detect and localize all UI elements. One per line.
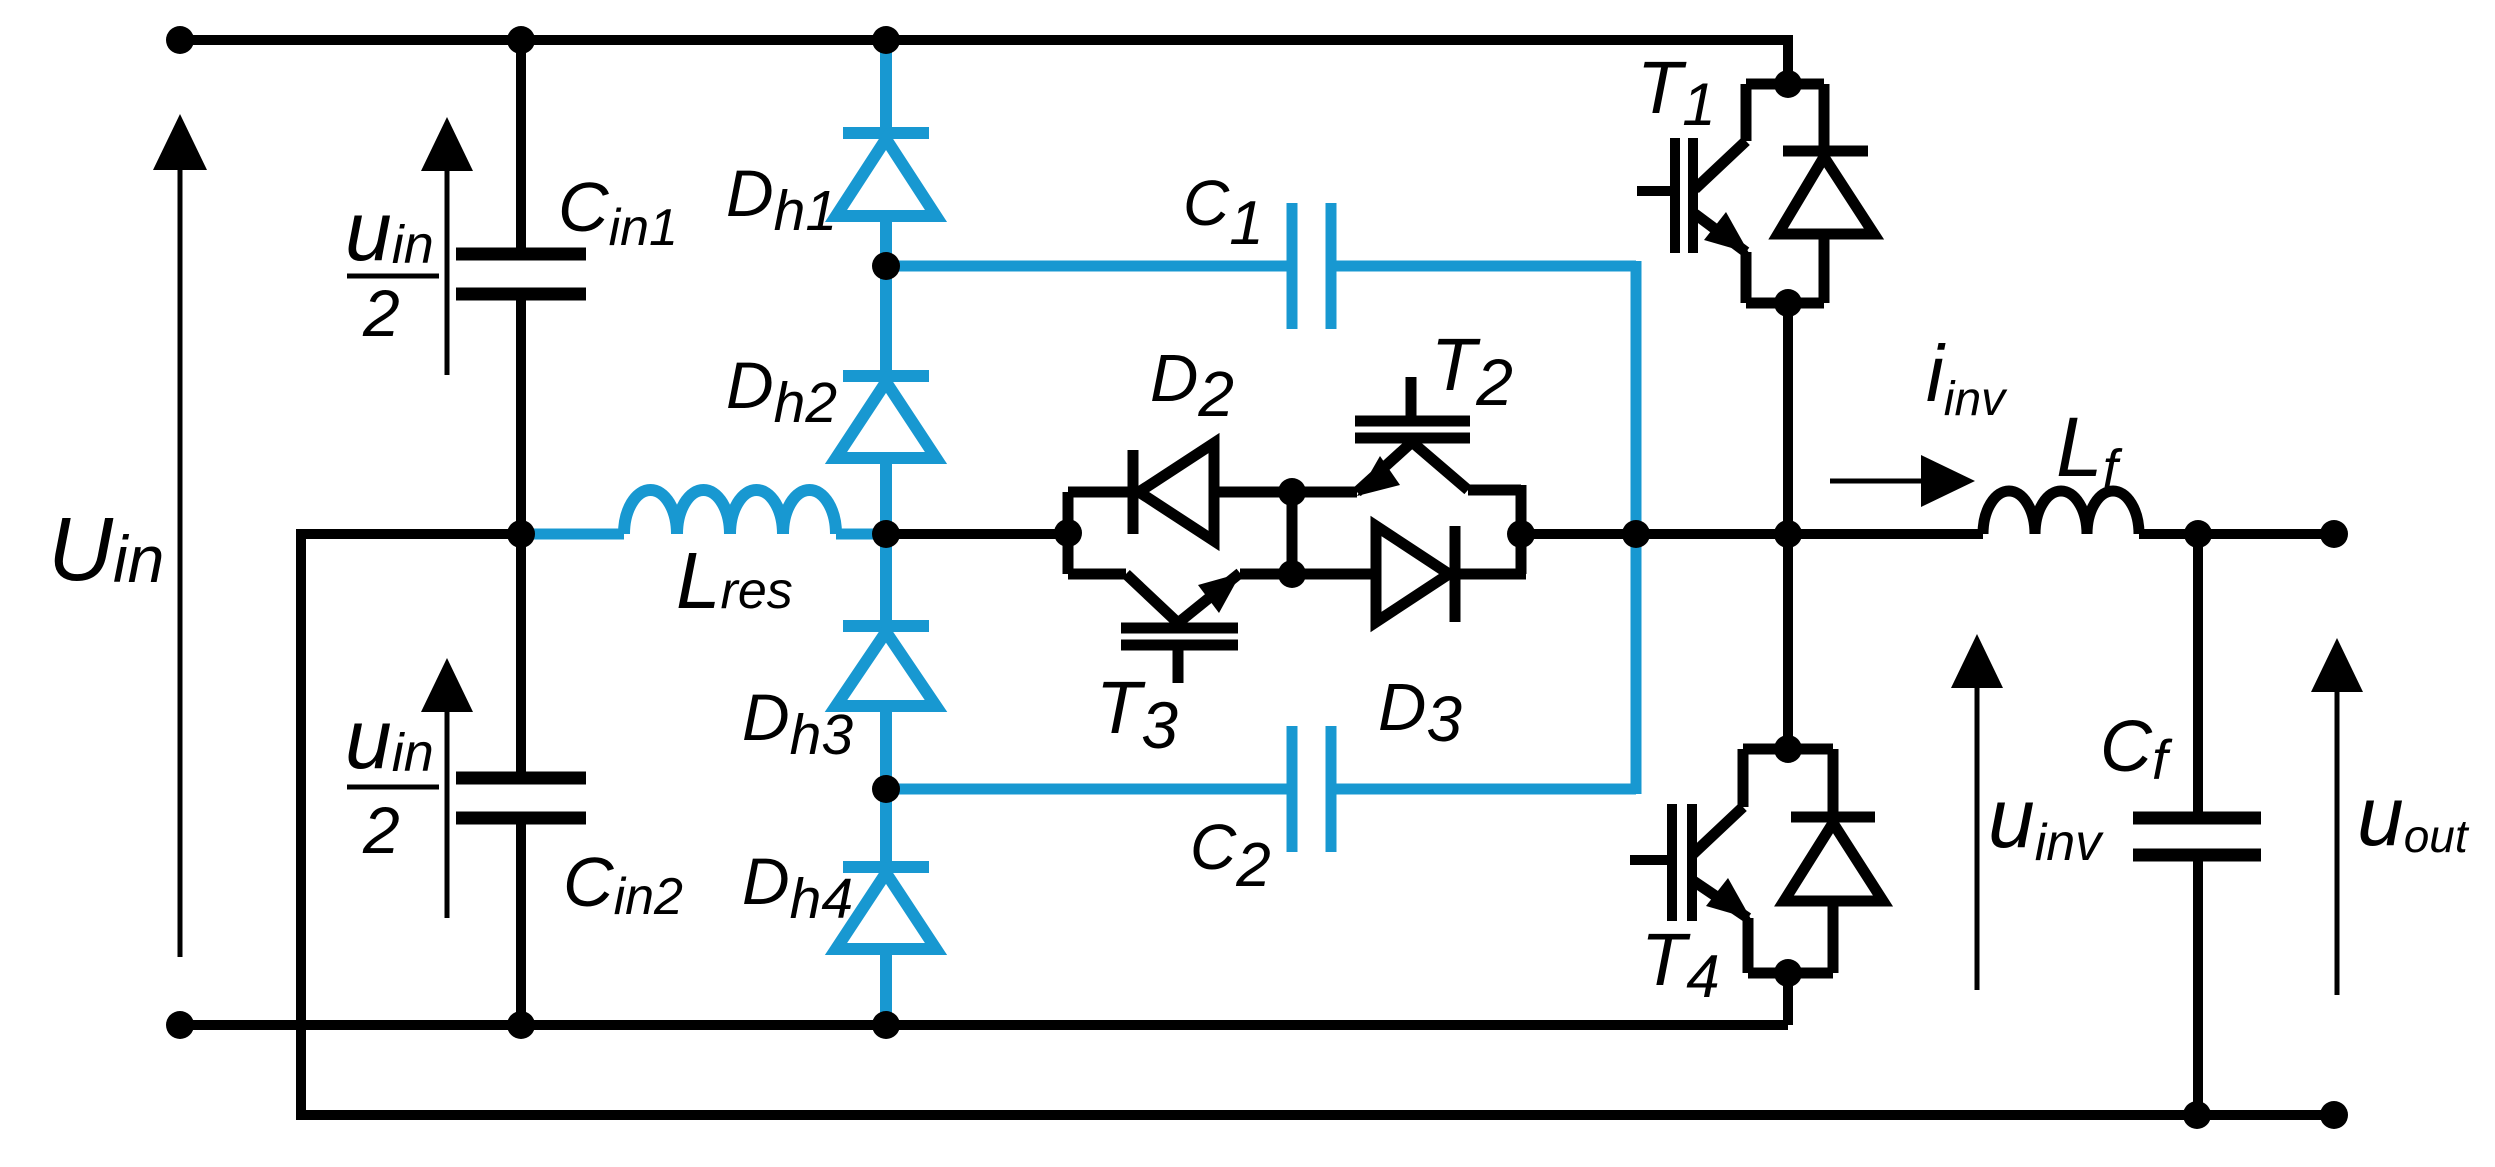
arrow uout [2311,638,2363,995]
diode T4 antiparallel [1784,749,1883,973]
arrow iinv [1830,455,1975,507]
diode Dh4 [836,789,936,1025]
transistor T3 [1068,529,1292,683]
diode T1 antiparallel [1778,84,1874,303]
node center top [1278,478,1306,506]
capacitor Cin1 [456,40,586,534]
wire T4 to bottom rail [1783,973,1793,1025]
wire T1 top drop [1783,35,1793,84]
arrow uin/2 top [421,117,473,375]
node switch right [1507,520,1535,548]
arrow Uin [153,114,207,957]
arrow uinv [1951,634,2003,990]
capacitor C2 [886,726,1636,852]
svg-text:2: 2 [362,276,400,350]
node C1 tap [872,252,900,280]
wire mid to T4 [1783,534,1793,749]
emitter arrow T3 [1198,573,1241,613]
wire bottom rail [180,1020,1788,1030]
diode Dh3 [836,534,936,789]
label uin/2 bottom [345,692,439,867]
node T1 bottom [1774,289,1802,317]
node C2 tap [872,775,900,803]
emitter arrow T2 [1357,456,1400,496]
emitter arrow T4 [1706,878,1751,919]
wire lower output rail [296,1110,2334,1120]
node top-left terminal [166,26,194,54]
node inverter mid [1774,520,1802,548]
arrow uin/2 bottom [421,658,473,918]
node T4 top [1774,735,1802,763]
capacitor C1 [886,203,1636,329]
diode D2 [1068,443,1292,541]
wire top rail [180,35,1788,45]
transistor T4 [1630,749,1788,973]
wire mid rail left [301,529,521,539]
node top Dh [872,26,900,54]
node mid Dh [872,520,900,548]
transistor T1 [1637,84,1788,303]
node T1 top [1774,70,1802,98]
wire T1 to mid [1783,303,1793,534]
node output [2184,520,2212,548]
node blue loop tap [1622,520,1650,548]
capacitor Cin2 [456,534,586,1025]
wire output to right end [2139,529,2334,539]
inductor Lf [1983,491,2139,534]
emitter arrow T1 [1704,212,1749,253]
wire mid rail center [886,529,1068,539]
node Cf bottom [2183,1101,2211,1129]
node bottom-left terminal [166,1011,194,1039]
wire mid rail right [1521,529,1983,539]
node bottom Dh [872,1011,900,1039]
node bottom Cin [507,1011,535,1039]
node top Cin1 [507,26,535,54]
diode Dh2 [836,266,936,534]
node center bottom [1278,560,1306,588]
transistor T2 [1292,377,1521,574]
node output right end [2320,520,2348,548]
node T4 bottom [1774,959,1802,987]
svg-text:D3: D3 [1378,670,1462,755]
diode D3 [1292,526,1526,622]
svg-text:2: 2 [362,793,400,867]
label uin/2 top [345,184,439,350]
node switch left [1054,519,1082,547]
node lower right end [2320,1101,2348,1129]
node mid Cin [507,520,535,548]
wire left connector vertical [296,529,306,1115]
node center connector [1287,492,1298,574]
diode Dh1 [836,40,936,266]
wire blue loop right vertical [1631,261,1642,794]
capacitor Cf [2133,534,2261,1115]
inductor Lres [521,490,886,534]
